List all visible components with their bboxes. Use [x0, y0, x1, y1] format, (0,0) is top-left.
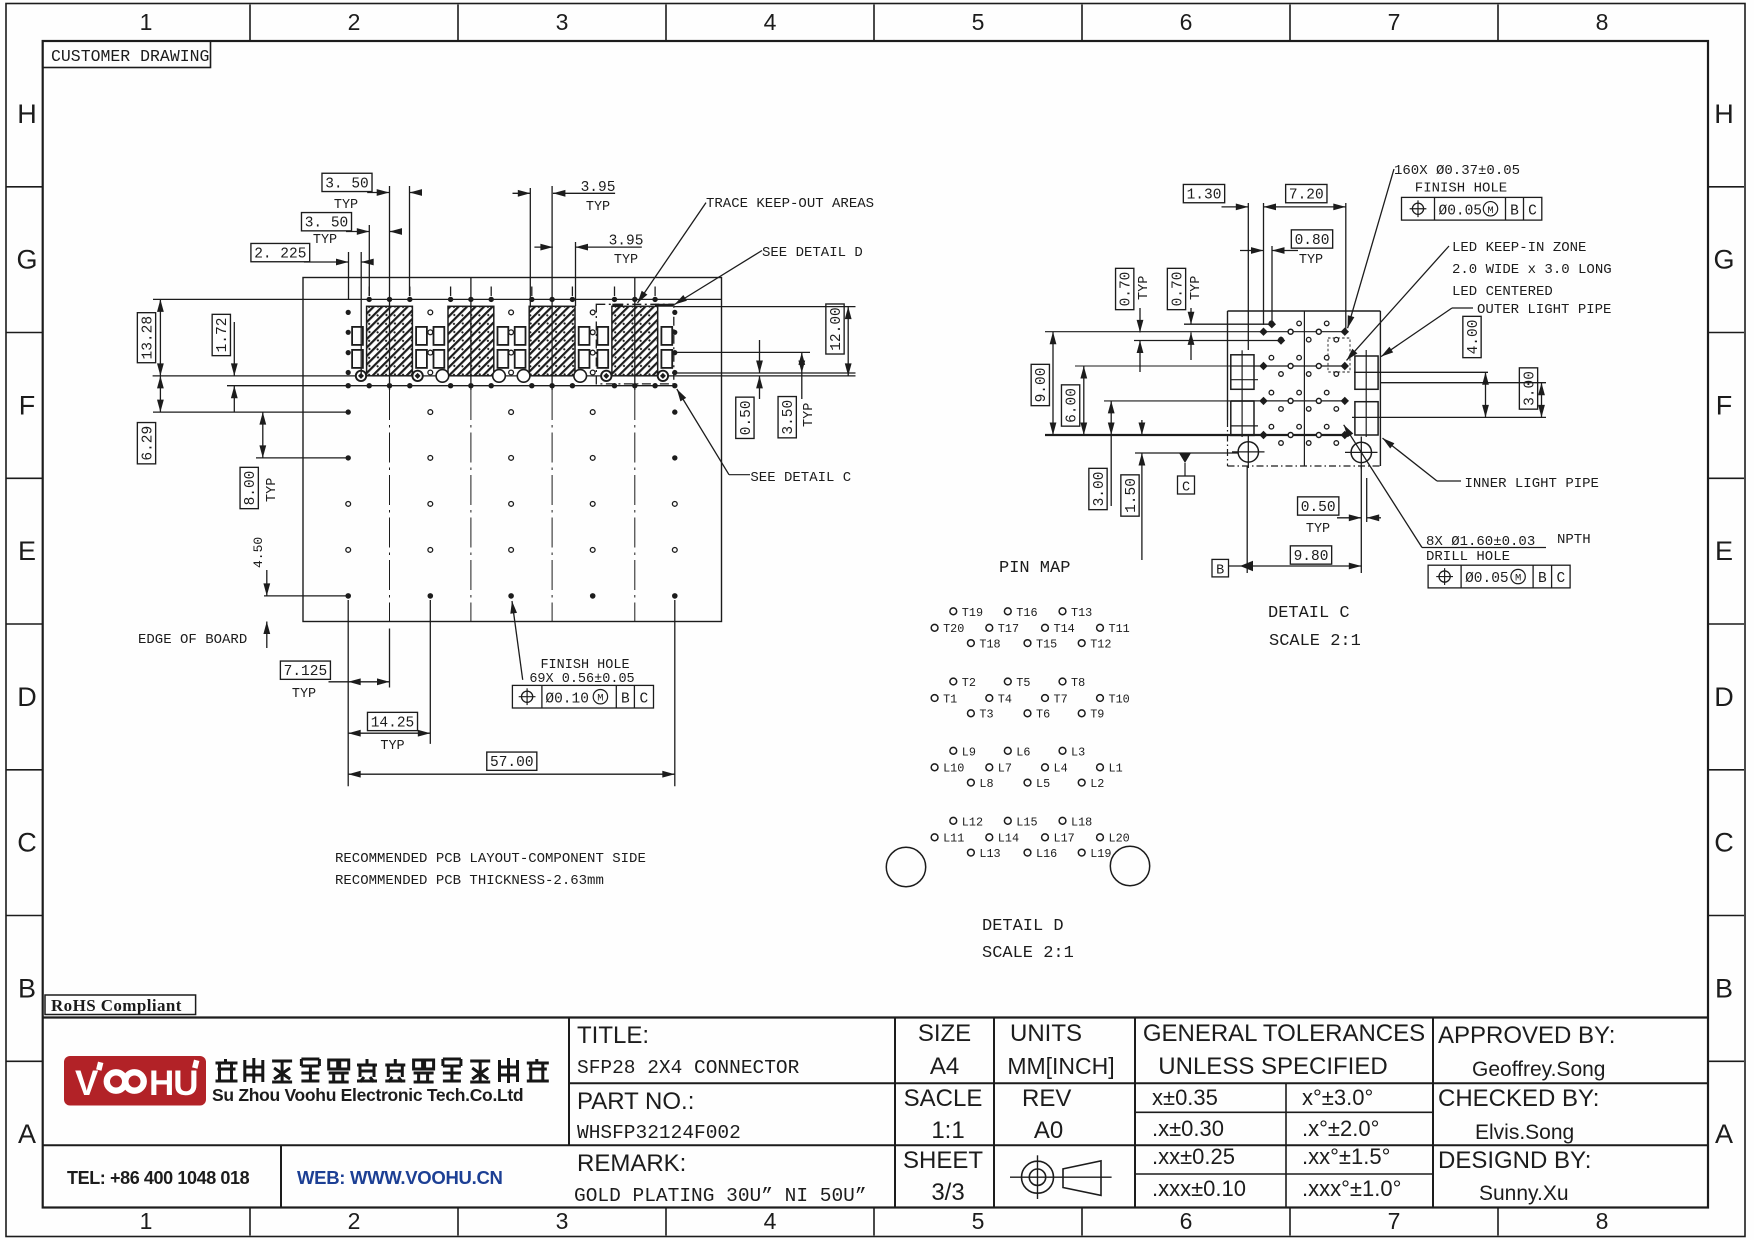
dimension 7.125 TYP	[280, 600, 389, 786]
svg-text:TYP: TYP	[265, 478, 280, 502]
svg-text:L12: L12	[962, 816, 983, 830]
APPROVED BY cell	[1438, 1022, 1615, 1081]
svg-text:HU: HU	[149, 1064, 198, 1103]
svg-text:A: A	[18, 1119, 36, 1149]
svg-text:T1: T1	[943, 692, 957, 706]
detail C inner light pipe rect	[1355, 402, 1378, 435]
svg-text:3. 50: 3. 50	[325, 176, 369, 192]
svg-text:L1: L1	[1109, 762, 1123, 776]
ext line right pad row	[677, 351, 810, 353]
svg-text:T8: T8	[1071, 676, 1085, 690]
DETAIL C caption	[1268, 604, 1361, 651]
svg-text:.xxx±0.10: .xxx±0.10	[1152, 1176, 1246, 1201]
detail C dim 0.70 TYP (right)	[1167, 268, 1204, 360]
detail C datum B and dim 9.80	[1212, 466, 1361, 578]
svg-text:7.125: 7.125	[284, 664, 328, 680]
frame row ticks	[6, 187, 1744, 1062]
svg-text:L14: L14	[998, 832, 1019, 846]
svg-text:M: M	[597, 693, 603, 705]
note 8X 1.60 NPTH DRILL HOLE + GDT	[1344, 425, 1591, 588]
leader TRACE KEEP-OUT AREAS	[638, 196, 875, 303]
svg-text:T4: T4	[998, 692, 1012, 706]
svg-text:L17: L17	[1054, 832, 1075, 846]
svg-text:WEB: WWW.VOOHU.CN: WEB: WWW.VOOHU.CN	[297, 1167, 503, 1188]
svg-text:6.29: 6.29	[140, 426, 156, 461]
svg-text:T12: T12	[1090, 638, 1111, 652]
dimension 12.00	[826, 304, 852, 376]
svg-text:B: B	[1216, 563, 1224, 578]
svg-text:4: 4	[764, 1208, 777, 1234]
DESIGND BY cell	[1438, 1147, 1591, 1205]
svg-text:RECOMMENDED PCB THICKNESS-2.63: RECOMMENDED PCB THICKNESS-2.63mm	[335, 873, 604, 889]
svg-text:PIN MAP: PIN MAP	[999, 559, 1070, 578]
svg-text:3.00: 3.00	[1522, 371, 1538, 406]
svg-text:TYP: TYP	[1299, 253, 1323, 268]
svg-text:12.00: 12.00	[829, 307, 845, 351]
detail C dim 0.70 TYP (left)	[1116, 268, 1250, 372]
detail C drill hole right	[1345, 437, 1378, 469]
svg-text:4: 4	[764, 9, 777, 35]
svg-text:4.50: 4.50	[251, 537, 266, 568]
svg-text:REV: REV	[1022, 1085, 1071, 1112]
svg-text:L8: L8	[979, 777, 993, 791]
svg-text:A0: A0	[1034, 1117, 1063, 1144]
svg-text:T7: T7	[1054, 692, 1068, 706]
connector footprint 4	[597, 287, 672, 389]
svg-text:TYP: TYP	[292, 687, 316, 702]
ext line footprint top right	[674, 306, 856, 308]
svg-text:7: 7	[1388, 9, 1401, 35]
svg-text:TYP: TYP	[380, 739, 404, 754]
svg-text:L2: L2	[1090, 777, 1104, 791]
SIZE cell	[918, 1020, 971, 1080]
svg-text:L5: L5	[1036, 777, 1050, 791]
detail C square outline	[1228, 311, 1381, 466]
svg-text:1.30: 1.30	[1187, 188, 1222, 204]
ext line top holes row	[153, 298, 721, 300]
detail C dim 7.20	[1264, 184, 1346, 210]
svg-text:B: B	[1538, 571, 1547, 587]
svg-text:SEE DETAIL C: SEE DETAIL C	[750, 470, 851, 486]
footprint center dash-dot lines	[390, 390, 635, 622]
detail C dim 3.00 left	[1089, 401, 1115, 510]
svg-text:B: B	[621, 691, 630, 707]
svg-text:2: 2	[348, 1208, 361, 1234]
svg-text:9.00: 9.00	[1034, 368, 1050, 403]
note 160X 0.37 FINISH HOLE + GDT	[1348, 163, 1542, 328]
svg-text:L11: L11	[943, 832, 964, 846]
svg-text:T10: T10	[1109, 692, 1130, 706]
svg-text:F: F	[1716, 390, 1733, 420]
detail C dim 3.00 right	[1519, 368, 1545, 418]
ext line row2	[153, 411, 350, 413]
CUSTOMER DRAWING label	[43, 41, 211, 68]
svg-text:TYP: TYP	[1189, 276, 1204, 300]
SACLE cell	[904, 1085, 983, 1144]
leader SEE DETAIL C	[677, 389, 851, 486]
svg-text:FINISH HOLE: FINISH HOLE	[540, 658, 629, 673]
VOOHU logo red box	[64, 1056, 206, 1106]
svg-text:WHSFP32124F002: WHSFP32124F002	[577, 1122, 741, 1144]
detail C drill hole left	[1232, 436, 1265, 468]
svg-text:L3: L3	[1071, 746, 1085, 760]
svg-text:DETAIL C: DETAIL C	[1268, 604, 1350, 623]
svg-text:T9: T9	[1090, 708, 1104, 722]
leader SEE DETAIL D	[675, 245, 863, 305]
svg-text:GOLD PLATING 30U” NI 50U”: GOLD PLATING 30U” NI 50U”	[574, 1185, 867, 1207]
svg-text:UNITS: UNITS	[1010, 1020, 1082, 1047]
svg-text:DETAIL D: DETAIL D	[982, 917, 1064, 936]
svg-text:CUSTOMER DRAWING: CUSTOMER DRAWING	[51, 47, 209, 66]
svg-text:L4: L4	[1054, 762, 1068, 776]
svg-text:M: M	[1515, 573, 1521, 585]
ext line hole center row	[153, 375, 856, 377]
svg-text:T16: T16	[1016, 606, 1037, 620]
svg-text:.x°±2.0°: .x°±2.0°	[1302, 1116, 1379, 1141]
svg-text:T17: T17	[998, 622, 1019, 636]
svg-text:SCALE 2:1: SCALE 2:1	[1269, 632, 1361, 651]
svg-text:T20: T20	[943, 622, 964, 636]
detail C dim 4.00	[1463, 316, 1489, 417]
svg-text:T6: T6	[1036, 708, 1050, 722]
connector footprint 2	[434, 287, 509, 389]
svg-text:Elvis.Song: Elvis.Song	[1475, 1121, 1574, 1144]
svg-text:B: B	[1510, 203, 1519, 219]
TITLE cell	[577, 1022, 800, 1079]
svg-text:7: 7	[1388, 1208, 1401, 1234]
dimension 8.00 TYP	[240, 412, 280, 509]
svg-text:A4: A4	[930, 1053, 959, 1080]
dimension 3.95 TYP (first)	[513, 180, 616, 306]
svg-text:2. 225: 2. 225	[254, 247, 306, 263]
svg-text:G: G	[1713, 245, 1734, 275]
note FINISH HOLE 69X 0.56 and GDT frame	[510, 601, 653, 708]
svg-text:.xx°±1.5°: .xx°±1.5°	[1302, 1144, 1390, 1169]
svg-text:C: C	[640, 691, 649, 707]
svg-text:Su Zhou Voohu Electronic Tech.: Su Zhou Voohu Electronic Tech.Co.Ltd	[212, 1085, 523, 1105]
svg-text:TYP: TYP	[313, 233, 337, 248]
svg-text:OUTER LIGHT PIPE: OUTER LIGHT PIPE	[1477, 302, 1611, 318]
svg-text:8: 8	[1596, 9, 1609, 35]
detail C pin field rows	[1045, 320, 1349, 445]
ext line row3	[256, 457, 350, 459]
svg-text:T18: T18	[979, 638, 1000, 652]
PART NO cell	[577, 1088, 741, 1144]
svg-text:C: C	[1182, 481, 1190, 496]
svg-text:NPTH: NPTH	[1557, 532, 1591, 548]
svg-text:C: C	[1528, 203, 1537, 219]
svg-text:0.70: 0.70	[1170, 272, 1186, 307]
svg-text:D: D	[17, 682, 37, 712]
svg-text:.xxx°±1.0°: .xxx°±1.0°	[1302, 1176, 1401, 1201]
svg-text:x°±3.0°: x°±3.0°	[1302, 1085, 1373, 1110]
svg-text:0.50: 0.50	[1301, 500, 1336, 516]
detail boundary dash box around footprint 4	[596, 304, 674, 384]
hole grid lower rows	[345, 409, 677, 598]
svg-text:3: 3	[556, 1208, 569, 1234]
detail C dim 9.00	[1031, 332, 1056, 435]
svg-text:RECOMMENDED PCB LAYOUT-COMPONE: RECOMMENDED PCB LAYOUT-COMPONENT SIDE	[335, 851, 646, 867]
third angle projection symbol	[1010, 1155, 1112, 1199]
dimension 3.95 TYP (second)	[534, 234, 643, 269]
svg-text:E: E	[1715, 536, 1733, 566]
svg-text:160X Ø0.37±0.05: 160X Ø0.37±0.05	[1394, 163, 1520, 179]
DETAIL D caption	[982, 917, 1074, 963]
svg-text:D: D	[1714, 682, 1734, 712]
svg-text:5: 5	[972, 9, 985, 35]
svg-text:5: 5	[972, 1208, 985, 1234]
dimension 14.25 TYP	[348, 600, 430, 754]
svg-text:T3: T3	[979, 708, 993, 722]
svg-text:.x±0.30: .x±0.30	[1152, 1116, 1224, 1141]
svg-text:SEE DETAIL D: SEE DETAIL D	[762, 245, 863, 261]
detail C left light pipe rects	[1231, 350, 1258, 437]
svg-text:C: C	[17, 828, 37, 858]
UNITS cell	[1007, 1020, 1114, 1079]
svg-text:SFP28 2X4 CONNECTOR: SFP28 2X4 CONNECTOR	[577, 1057, 800, 1079]
dimension 2.225	[251, 243, 374, 375]
note RECOMMENDED PCB	[335, 851, 646, 889]
detail C outer light pipe rect	[1355, 350, 1378, 437]
svg-text:13.28: 13.28	[140, 316, 156, 360]
note INNER LIGHT PIPE	[1383, 438, 1599, 492]
pin map mounting circle left	[886, 847, 925, 886]
svg-text:TYP: TYP	[1306, 522, 1330, 537]
svg-text:1.50: 1.50	[1124, 478, 1140, 513]
pin map mounting circle right	[1110, 846, 1149, 885]
PCB board outline	[303, 278, 722, 622]
svg-text:B: B	[1715, 973, 1733, 1003]
svg-text:SHEET: SHEET	[903, 1147, 983, 1174]
svg-text:Geoffrey.Song: Geoffrey.Song	[1472, 1058, 1605, 1081]
RoHS Compliant label	[45, 995, 196, 1015]
svg-text:E: E	[18, 536, 36, 566]
svg-text:Sunny.Xu: Sunny.Xu	[1479, 1182, 1569, 1205]
svg-text:.xx±0.25: .xx±0.25	[1152, 1144, 1235, 1169]
svg-text:Ø0.05: Ø0.05	[1465, 571, 1509, 587]
detail C ext verticals top	[1247, 203, 1249, 350]
dimension 3.50 TYP (first)	[322, 173, 422, 296]
svg-text:A: A	[1715, 1119, 1733, 1149]
detail C right ext lines	[1354, 371, 1488, 373]
svg-text:L18: L18	[1071, 816, 1092, 830]
svg-text:SIZE: SIZE	[918, 1020, 971, 1047]
svg-text:TITLE:: TITLE:	[577, 1022, 649, 1049]
svg-text:APPROVED BY:: APPROVED BY:	[1438, 1022, 1615, 1049]
connector footprint 3	[515, 287, 590, 389]
svg-text:H: H	[1714, 99, 1734, 129]
REV cell	[1022, 1085, 1071, 1144]
svg-text:C: C	[1556, 571, 1565, 587]
svg-text:DRILL HOLE: DRILL HOLE	[1426, 549, 1510, 565]
svg-text:1:1: 1:1	[931, 1117, 964, 1144]
svg-text:7.20: 7.20	[1289, 188, 1324, 204]
svg-text:3.00: 3.00	[1092, 472, 1108, 507]
detail C LED keep-in zone dashed	[1328, 338, 1350, 372]
GENERAL TOLERANCES header	[1143, 1020, 1425, 1080]
svg-text:TYP: TYP	[334, 198, 358, 213]
svg-text:T13: T13	[1071, 606, 1092, 620]
note OUTER LIGHT PIPE	[1381, 302, 1611, 357]
svg-text:69X 0.56±0.05: 69X 0.56±0.05	[529, 672, 634, 687]
svg-text:L13: L13	[979, 847, 1000, 861]
svg-text:GENERAL TOLERANCES: GENERAL TOLERANCES	[1143, 1020, 1425, 1047]
svg-text:3/3: 3/3	[931, 1179, 964, 1206]
svg-text:T11: T11	[1109, 622, 1130, 636]
svg-text:3. 50: 3. 50	[305, 216, 349, 232]
svg-text:1: 1	[140, 9, 153, 35]
svg-text:TYP: TYP	[802, 403, 817, 427]
svg-text:L9: L9	[962, 746, 976, 760]
svg-text:LED KEEP-IN ZONE: LED KEEP-IN ZONE	[1452, 240, 1586, 256]
svg-text:INNER LIGHT PIPE: INNER LIGHT PIPE	[1465, 476, 1599, 492]
svg-text:14.25: 14.25	[371, 715, 415, 731]
dimension 0.50 right	[736, 340, 763, 438]
svg-text:UNLESS SPECIFIED: UNLESS SPECIFIED	[1158, 1053, 1387, 1080]
svg-text:57.00: 57.00	[490, 755, 534, 771]
svg-text:TYP: TYP	[586, 200, 610, 215]
detail C dim 1.50	[1121, 420, 1145, 560]
note LED KEEP-IN ZONE	[1347, 240, 1612, 360]
title block grid lines	[43, 1018, 1708, 1208]
pin map pin groups	[931, 606, 1130, 861]
svg-text:REMARK:: REMARK:	[577, 1150, 686, 1177]
svg-text:L7: L7	[998, 762, 1012, 776]
svg-text:FINISH HOLE: FINISH HOLE	[1415, 181, 1507, 197]
ext line right keepout bottom	[672, 372, 856, 374]
svg-text:3.50: 3.50	[781, 400, 797, 435]
svg-text:Ø0.05: Ø0.05	[1439, 203, 1483, 219]
svg-text:SCALE 2:1: SCALE 2:1	[982, 944, 1074, 963]
svg-text:6: 6	[1180, 1208, 1193, 1234]
svg-text:T2: T2	[962, 676, 976, 690]
svg-text:TRACE KEEP-OUT AREAS: TRACE KEEP-OUT AREAS	[706, 196, 874, 212]
svg-text:0.50: 0.50	[739, 400, 755, 435]
svg-text:8: 8	[1596, 1208, 1609, 1234]
ext line below-dots row	[227, 385, 677, 387]
svg-text:8.00: 8.00	[243, 471, 259, 506]
detail C dim 6.00	[1061, 366, 1087, 435]
detail C dim 1.30	[1183, 184, 1248, 210]
svg-text:T15: T15	[1036, 638, 1057, 652]
dimension 6.29	[137, 376, 163, 464]
dimension 13.28	[137, 299, 163, 376]
center ext lines above footprints	[389, 186, 391, 390]
svg-text:T5: T5	[1016, 676, 1030, 690]
REMARK cell	[574, 1150, 867, 1207]
svg-text:RoHS Compliant: RoHS Compliant	[51, 996, 182, 1015]
svg-text:TYP: TYP	[1137, 276, 1152, 300]
svg-text:EDGE OF BOARD: EDGE OF BOARD	[138, 632, 247, 648]
svg-text:T19: T19	[962, 606, 983, 620]
dimension 3.50 TYP (second)	[301, 213, 402, 248]
detail C dim 0.80 TYP	[1240, 230, 1333, 268]
dimension 1.72	[212, 314, 238, 412]
svg-text:TEL: +86 400 1048 018: TEL: +86 400 1048 018	[67, 1168, 250, 1188]
svg-text:L16: L16	[1036, 847, 1057, 861]
svg-text:PART NO.:: PART NO.:	[577, 1088, 694, 1115]
svg-text:V: V	[75, 1064, 99, 1103]
svg-text:x±0.35: x±0.35	[1152, 1085, 1218, 1110]
svg-text:CHECKED BY:: CHECKED BY:	[1438, 1085, 1599, 1112]
CHECKED BY cell	[1438, 1085, 1599, 1144]
frame column ticks	[250, 5, 1498, 1236]
detail C datum C symbol	[1135, 453, 1238, 496]
svg-text:LED CENTERED: LED CENTERED	[1452, 284, 1553, 300]
svg-text:2: 2	[348, 9, 361, 35]
svg-text:0.80: 0.80	[1295, 233, 1330, 249]
svg-text:1: 1	[140, 1208, 153, 1234]
svg-text:2.0 WIDE x 3.0 LONG: 2.0 WIDE x 3.0 LONG	[1452, 262, 1612, 278]
svg-text:T14: T14	[1054, 622, 1075, 636]
tolerance values	[1152, 1085, 1401, 1201]
dimension 3.50 TYP right	[778, 352, 817, 437]
dimension 57.00	[348, 600, 675, 786]
svg-text:3: 3	[556, 9, 569, 35]
connector footprint 1	[352, 287, 427, 389]
svg-text:SACLE: SACLE	[904, 1085, 983, 1112]
svg-text:6.00: 6.00	[1065, 388, 1081, 423]
company name Chinese characters	[216, 1058, 549, 1083]
svg-text:L6: L6	[1016, 746, 1030, 760]
ext line row bottom	[264, 595, 350, 597]
svg-text:DESIGND BY:: DESIGND BY:	[1438, 1147, 1591, 1174]
svg-text:TYP: TYP	[614, 253, 638, 268]
svg-text:4.00: 4.00	[1466, 320, 1482, 355]
svg-text:Ø0.10: Ø0.10	[545, 691, 589, 707]
detail C dim 0.50 TYP	[1298, 466, 1381, 573]
hole columns side dots	[346, 310, 678, 389]
dimension 4.50	[251, 537, 270, 648]
svg-text:0.70: 0.70	[1119, 272, 1135, 307]
svg-text:H: H	[17, 99, 37, 129]
svg-text:1.72: 1.72	[215, 318, 231, 353]
svg-text:M: M	[1487, 205, 1493, 217]
svg-text:F: F	[19, 390, 36, 420]
svg-text:L20: L20	[1109, 832, 1130, 846]
svg-text:MM[INCH]: MM[INCH]	[1007, 1053, 1114, 1079]
svg-text:9.80: 9.80	[1294, 549, 1329, 565]
svg-text:L15: L15	[1016, 816, 1037, 830]
svg-text:6: 6	[1180, 9, 1193, 35]
SHEET cell	[903, 1147, 983, 1206]
svg-text:L19: L19	[1090, 847, 1111, 861]
svg-text:C: C	[1714, 828, 1734, 858]
svg-text:L10: L10	[943, 762, 964, 776]
svg-text:B: B	[18, 973, 36, 1003]
svg-text:G: G	[16, 245, 37, 275]
